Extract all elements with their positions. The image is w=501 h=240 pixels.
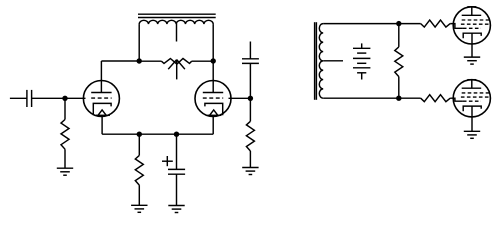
capacitor C1 input coupling	[27, 90, 32, 107]
capacitor C3	[242, 59, 259, 64]
wire C1 to grid node	[32, 97, 65, 99]
wire R1 to ground	[64, 149, 66, 168]
wire R4 to ground	[249, 151, 251, 168]
wire T2 bottom rail	[323, 97, 399, 99]
ground below R4	[242, 168, 258, 175]
wire transformer right winding lead down	[212, 24, 214, 61]
ground below R3	[131, 205, 147, 212]
label C2 plus polarity	[162, 156, 173, 166]
node top rail	[396, 21, 401, 26]
resistor R1 grid leak	[61, 120, 69, 150]
wire bottom rail to R7	[399, 97, 421, 99]
wire potentiometer to right node	[192, 60, 214, 62]
wire V2 plate lead up	[212, 61, 214, 93]
capacitor C2 electrolytic bypass	[168, 169, 185, 174]
transformer T1 primary winding	[139, 20, 213, 24]
transformer T1 core lines	[138, 14, 216, 17]
resistor R7 series bottom	[421, 95, 451, 102]
triode V1	[83, 81, 119, 117]
wire V3 cathode down	[471, 33, 473, 57]
wire V4 cathode down	[471, 106, 473, 131]
transformer T2 core lines	[315, 22, 317, 100]
resistor R6 series top	[421, 20, 451, 27]
transformer T2 secondary winding	[319, 24, 323, 99]
tube V4	[453, 80, 490, 117]
potentiometer R2 hum balance zigzag	[161, 59, 191, 65]
node bottom rail	[396, 96, 401, 101]
node transformer right end	[211, 58, 216, 63]
wire stub above C3	[249, 42, 251, 59]
wire V2 cathode down	[212, 115, 214, 134]
ground below V3	[464, 57, 480, 64]
wire rail down to C2	[176, 134, 178, 169]
wire input lead	[10, 97, 27, 99]
wire T2 center tap stub	[323, 60, 343, 62]
wire V1 cathode down	[101, 115, 103, 134]
wire rail down to R3	[138, 134, 140, 155]
wire R3 to ground	[138, 185, 140, 205]
wire T2 top rail	[323, 23, 399, 25]
wire V1 plate to transformer left node	[101, 60, 139, 62]
ground below V4	[464, 131, 480, 138]
wire T1 center tap	[176, 23, 178, 41]
ground below R1	[57, 168, 73, 175]
node cathode rail C2	[174, 132, 179, 137]
node transformer left end	[137, 58, 142, 63]
wire R7 to V4 grid with jog	[450, 98, 463, 101]
battery BT1	[353, 43, 370, 79]
wire top rail to R6	[399, 23, 421, 25]
tube V3	[453, 7, 490, 44]
wire grid node down to R1	[64, 98, 66, 119]
triode V2	[195, 81, 231, 117]
potentiometer R2 wiper arrow	[168, 60, 185, 80]
wire V1 plate lead up	[100, 61, 102, 93]
resistor R5 zigzag	[395, 47, 403, 77]
wire left node to potentiometer	[139, 60, 161, 62]
wire R6 to V3 grid with jog	[450, 24, 463, 29]
wire V2 grid lead right	[229, 97, 251, 99]
resistor R3 cathode bias	[135, 155, 143, 185]
node grid V2 junction	[248, 96, 253, 101]
wire R5 bottom to rail	[398, 77, 400, 99]
wire rail to R5 top	[398, 24, 400, 47]
ground below C2	[168, 206, 184, 213]
wire transformer left winding lead down	[138, 24, 140, 61]
wire node down to R4	[249, 98, 251, 121]
wire C2 to ground	[176, 174, 178, 205]
wire C3 down to grid node V2	[249, 63, 251, 98]
resistor R4 grid leak	[246, 121, 254, 151]
wire cathode bus rail	[102, 133, 213, 135]
node cathode rail R3	[137, 132, 142, 137]
node grid V1 junction	[62, 96, 67, 101]
wire grid node to V1 grid	[65, 97, 86, 99]
